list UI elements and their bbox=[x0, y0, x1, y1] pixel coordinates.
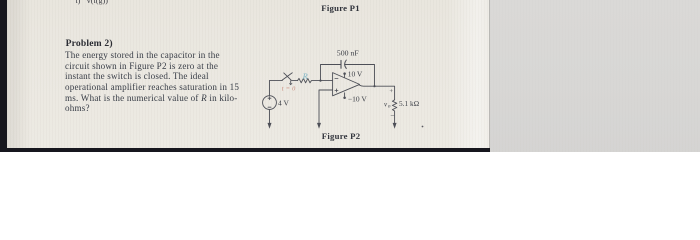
svg-text:t = 0: t = 0 bbox=[282, 85, 296, 92]
svg-text:R: R bbox=[302, 72, 308, 81]
svg-text:4 V: 4 V bbox=[278, 98, 289, 107]
svg-text:o: o bbox=[388, 104, 391, 110]
svg-text:+: + bbox=[389, 88, 393, 95]
svg-text:10 V: 10 V bbox=[348, 70, 363, 79]
svg-text:5.1 kΩ: 5.1 kΩ bbox=[399, 99, 419, 108]
svg-text:500 nF: 500 nF bbox=[337, 48, 360, 57]
svg-text:−10 V: −10 V bbox=[348, 95, 367, 104]
svg-text:−: − bbox=[390, 111, 394, 120]
